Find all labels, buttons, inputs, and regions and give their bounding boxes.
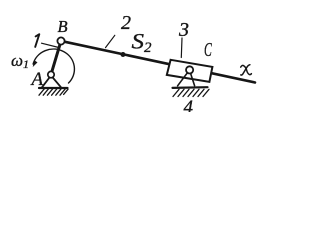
omega1 rotation arc (33, 49, 74, 83)
slider block 3 (167, 60, 213, 82)
wire: connecting rod 2 from B through slider to x end (62, 41, 255, 82)
omega1 arrowhead (33, 60, 38, 67)
ground hatching at A (39, 89, 68, 95)
ground hatching at slider guide 4 (173, 89, 209, 96)
leader line of label 2 (106, 35, 115, 47)
pin support triangle at C (178, 70, 195, 86)
pivot circle A (48, 71, 54, 77)
ground line at A (39, 87, 68, 89)
leader line of label 1 (42, 43, 59, 47)
ground line at slider guide (173, 86, 208, 89)
svg-text:3: 3 (178, 19, 189, 41)
crank 1 link A-B (51, 41, 61, 75)
svg-text:C: C (204, 40, 212, 61)
pin circle C (186, 66, 193, 73)
svg-text:4: 4 (184, 97, 194, 112)
label x axis (241, 65, 252, 75)
center of mass dot S2 (121, 52, 126, 57)
svg-text:2: 2 (121, 12, 131, 34)
leader line of label 3 (180, 38, 183, 58)
svg-text:B: B (58, 17, 68, 36)
svg-text:ω1: ω1 (11, 51, 29, 71)
label 1 (35, 34, 39, 47)
joint circle B (57, 37, 64, 44)
support triangle at A (42, 76, 61, 88)
svg-text:A: A (30, 69, 44, 90)
svg-text:S2: S2 (132, 29, 153, 56)
